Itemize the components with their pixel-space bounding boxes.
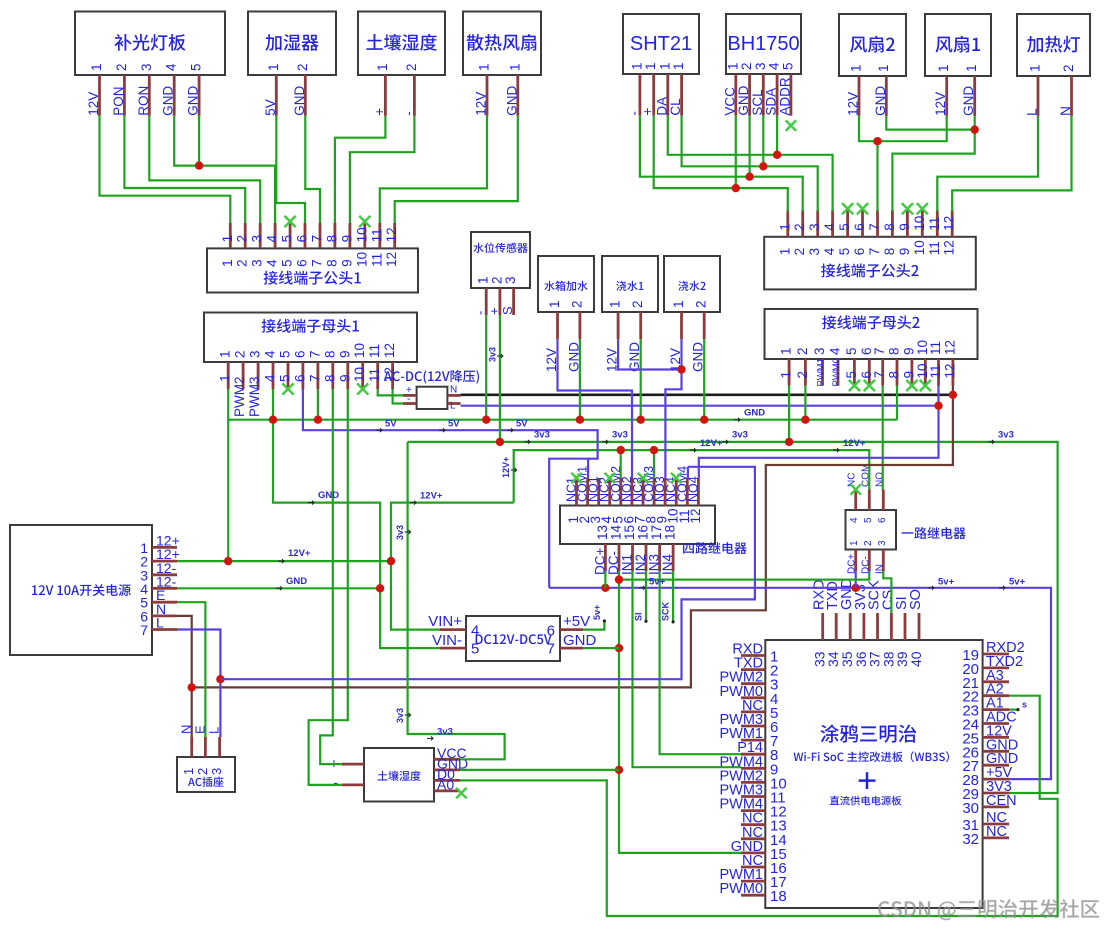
wire SHT21.+ / BH1750.VCC -> 公头2.1 <box>654 116 788 212</box>
J5 风扇2 pin 1 (12V) <box>846 64 864 115</box>
junction DC- U6.GND <box>615 766 623 774</box>
K2 pin 5 (COM) <box>860 464 874 523</box>
svg-text:10: 10 <box>912 240 927 255</box>
svg-text:8: 8 <box>324 259 339 267</box>
wire 补光灯板.1 12V -> 公头1.1 <box>100 116 231 223</box>
U3 BH1750 光照传感器 pin 2 (GND) <box>736 62 754 115</box>
no-connect J9 接线端子公头2 pin 5 <box>842 203 853 214</box>
U1 pin 37 (SCK) <box>867 580 883 667</box>
svg-text:3v3: 3v3 <box>998 430 1014 441</box>
net label 5v+ x3 <box>639 577 1026 590</box>
wire U1.23 A1 s flag <box>1009 708 1018 710</box>
svg-text:3v3: 3v3 <box>732 430 748 441</box>
svg-text:4: 4 <box>767 62 782 70</box>
J8 接线端子公头1 pin 4 <box>265 223 280 267</box>
svg-text:CL: CL <box>668 98 683 116</box>
svg-text:3: 3 <box>250 259 265 267</box>
svg-text:DA: DA <box>654 97 669 116</box>
U1 pin 3 (PWM2) <box>720 670 779 694</box>
wire 母头2.12 -> AC-N junction <box>952 386 954 395</box>
svg-text:3v3: 3v3 <box>395 708 405 723</box>
svg-text:1: 1 <box>643 62 658 70</box>
net label 3v3 rotated 水位 <box>487 347 503 362</box>
J15 浇水2 pin 2 (GND) <box>691 300 709 372</box>
svg-text:3: 3 <box>503 276 518 284</box>
U4 pin L <box>447 401 460 412</box>
svg-text:9: 9 <box>339 235 354 243</box>
connector J5 风扇2 <box>839 14 906 76</box>
svg-text:2: 2 <box>863 540 874 546</box>
J11 接线端子母头2 pin 2 <box>795 347 810 385</box>
J10 接线端子母头1 pin 7 <box>307 350 322 389</box>
wire DC- rail east <box>619 571 869 579</box>
wire PSU.7 L -> AC插座.3 <box>177 630 220 738</box>
svg-text:8: 8 <box>324 235 339 243</box>
svg-text:4: 4 <box>822 223 837 231</box>
no-connect K2 NC <box>851 484 861 494</box>
svg-text:11: 11 <box>369 253 384 267</box>
connector J9 接线端子公头2 <box>764 237 976 290</box>
wire K1.IN4 SCK flag <box>672 571 674 622</box>
U1 pin 36 (3V3) <box>853 584 869 667</box>
U1 pin 40 (SO) <box>908 589 924 667</box>
svg-text:VIN-: VIN- <box>432 632 462 649</box>
wire N net: 母头2.12 -> PSU.N / AC插座.N <box>192 395 953 688</box>
svg-text:1: 1 <box>220 259 235 267</box>
svg-text:6: 6 <box>852 248 867 256</box>
svg-text:9: 9 <box>897 223 912 231</box>
PS1 pin 3 (12-) <box>140 560 177 584</box>
svg-text:1: 1 <box>964 64 979 72</box>
svg-text:11: 11 <box>927 241 942 255</box>
wire U5.+5V 5v+ flag <box>583 621 604 630</box>
svg-text:12V+: 12V+ <box>501 457 511 478</box>
svg-text:8: 8 <box>887 371 902 379</box>
svg-text:12: 12 <box>382 343 397 358</box>
wire 加热灯.L -> 公头2.11 <box>937 116 1038 212</box>
svg-text:10: 10 <box>354 227 369 242</box>
U2 SHT21 温湿度传感器 pin 1 (CL) <box>668 62 686 115</box>
wire 12V+ bus west segment <box>391 503 514 630</box>
K1 pin 4 (NC2) <box>598 477 615 524</box>
PS1 pin 1 (12+) <box>140 532 180 556</box>
module U5 DC12V-DC5V <box>466 616 560 661</box>
svg-text:GND: GND <box>318 490 339 501</box>
net label 5V x3 <box>376 419 528 433</box>
svg-text:5: 5 <box>471 641 479 658</box>
wire 土壤湿度.+ -> 公头1.8 <box>335 116 386 223</box>
svg-text:10: 10 <box>912 216 927 231</box>
U1 pin 19 (RXD2) <box>962 640 1024 664</box>
module U6 土壤湿度 <box>364 748 434 802</box>
U1 pin 10 (PWM2) <box>720 768 787 792</box>
svg-text:4: 4 <box>263 374 278 382</box>
U1 pin 20 (TXD2) <box>962 654 1023 678</box>
connector J3 土壤湿度传感器接头 <box>358 12 445 76</box>
svg-text:A0: A0 <box>437 776 454 792</box>
svg-text:PON: PON <box>111 87 126 116</box>
svg-text:18: 18 <box>770 888 787 905</box>
svg-text:12V+: 12V+ <box>288 548 311 559</box>
wire U6.D0 -> U1.22 A2 <box>460 696 1058 916</box>
wire 补光灯板.2 PON -> 公头1.2 <box>124 116 245 223</box>
svg-text:12: 12 <box>384 227 399 242</box>
svg-text:10: 10 <box>352 367 367 382</box>
svg-text:5V: 5V <box>448 419 460 430</box>
U1 pin 31 (NC) <box>962 810 1009 834</box>
svg-text:5v+: 5v+ <box>649 577 666 588</box>
svg-text:3v3: 3v3 <box>395 525 405 540</box>
K1 pin 13 (DC+) <box>592 525 610 575</box>
J16 pin 1 (N) <box>179 725 197 775</box>
svg-text:11: 11 <box>928 341 943 355</box>
no-connect J11 接线端子母头2 pin 9 <box>906 380 917 391</box>
J3 土壤湿度传感器接头 pin 2 (-) <box>401 63 419 115</box>
no-connect BH1750 ADDR <box>786 120 796 130</box>
U1 pin 21 (A3) <box>962 668 1009 692</box>
svg-text:PWM0: PWM0 <box>831 358 842 387</box>
wire 母头2.2 -> GND bus <box>804 386 806 420</box>
wire BH1750.SDA stub-down <box>776 116 778 155</box>
junction 灯GND <box>195 161 203 169</box>
J14 浇水1 pin 2 (GND) <box>627 300 645 372</box>
wire K2.DC+ -> 5v+ <box>855 571 857 588</box>
J2 加湿器 pin 1 (5V) <box>263 63 281 115</box>
net label 3v3 bus x4 <box>524 430 1014 444</box>
svg-text:5V: 5V <box>263 99 278 116</box>
svg-text:s: s <box>1022 700 1027 710</box>
wire K1.IN1 -> U1.9 PWM4 <box>633 571 742 767</box>
connector J6 风扇1 <box>925 14 991 76</box>
K2 pin 2 (DC-) <box>860 540 874 574</box>
svg-text:40: 40 <box>908 651 924 667</box>
U2 SHT21 温湿度传感器 pin 1 (DA) <box>654 62 672 115</box>
J9 接线端子公头2 pin 9 <box>897 210 912 255</box>
svg-text:1: 1 <box>507 63 522 71</box>
no-connect J9 接线端子公头2 pin 6 <box>857 203 868 214</box>
J4 散热风扇 pin 1 (12V) <box>474 63 492 115</box>
wire 补光灯板.3 RON -> 公头1.3 <box>149 116 260 223</box>
J8 接线端子公头1 pin 3 <box>250 223 265 267</box>
svg-text:7: 7 <box>307 350 322 358</box>
wire PSU.6 N -> AC插座.1 <box>177 616 192 737</box>
wire 风扇2.12V joins 风扇1.12V <box>859 116 878 141</box>
wire PSU.5 E -> AC插座.2 <box>177 602 205 737</box>
J7 加热灯 pin 2 (N) <box>1058 64 1076 115</box>
svg-text:GND: GND <box>873 86 888 116</box>
wire 12V+ -> COM2 <box>620 450 622 478</box>
J10 接线端子母头1 pin 10 <box>352 343 367 389</box>
U4 pin - <box>403 393 417 405</box>
svg-text:2: 2 <box>233 350 248 358</box>
svg-text:S: S <box>500 306 515 315</box>
wire 浇水2.GND -> GND bus <box>703 339 705 419</box>
wire SHT21.- / BH1750.GND -> 公头2.2 <box>640 116 803 212</box>
U2 SHT21 温湿度传感器 pin 1 (-) <box>626 62 644 115</box>
svg-text:NC: NC <box>986 824 1007 840</box>
svg-text:SCL: SCL <box>750 89 765 116</box>
svg-text:11: 11 <box>367 368 382 382</box>
wire 风扇2.GND joins 风扇1.GND <box>886 116 974 130</box>
J16 pin 2 (E) <box>192 725 210 775</box>
svg-text:6: 6 <box>852 223 867 231</box>
junction N AC插座 <box>188 683 196 691</box>
wire U6.GND -> DC- rail <box>460 769 619 771</box>
junction GND bus <box>637 416 645 424</box>
no-connect J9 接线端子公头2 pin 9 <box>902 203 913 214</box>
U1 pin 2 (TXD) <box>734 656 778 680</box>
wire 水位传感器.- -> GND bus <box>485 315 487 420</box>
wire GND bus <box>229 419 898 421</box>
wire 加湿器.2 GND -> 公头1.7 <box>305 116 320 223</box>
svg-text:N: N <box>1058 106 1073 116</box>
J11 接线端子母头2 pin 10 <box>915 340 930 386</box>
svg-text:3: 3 <box>209 768 224 775</box>
svg-text:GND: GND <box>504 86 519 116</box>
junction 5v+ K1.DC+ <box>601 584 609 592</box>
J10 接线端子母头1 pin 11 <box>367 344 382 389</box>
connector J15 浇水2 <box>664 256 720 312</box>
J9 接线端子公头2 pin 3 <box>807 210 822 255</box>
svg-text:12V+: 12V+ <box>420 491 443 502</box>
K1 pin 15 (IN1) <box>620 525 638 575</box>
svg-text:VIN+: VIN+ <box>428 613 462 630</box>
J11 接线端子母头2 pin 8 <box>887 347 902 385</box>
svg-text:-: - <box>333 774 338 790</box>
svg-text:GND: GND <box>563 632 597 649</box>
svg-text:4: 4 <box>828 347 843 355</box>
U4 pin + <box>403 385 417 396</box>
wire 母头1.11 -> AC-DC.+ <box>378 389 403 395</box>
J11 接线端子母头2 pin 4 <box>828 347 843 387</box>
svg-text:18: 18 <box>663 525 678 540</box>
svg-text:12: 12 <box>688 508 703 523</box>
svg-text:5V: 5V <box>385 419 397 430</box>
junction 风扇12V <box>873 137 881 145</box>
svg-text:12V+: 12V+ <box>700 438 723 449</box>
svg-text:30: 30 <box>962 800 979 817</box>
junction I2C VCC <box>732 184 740 192</box>
wire 水箱加水.GND -> GND bus <box>579 339 581 419</box>
PS1 pin 2 (12+) <box>140 546 180 570</box>
U1 pin 22 (A2) <box>962 682 1009 706</box>
wire 母头2.1 -> 3v3 bus <box>788 386 790 442</box>
svg-text:2: 2 <box>195 768 210 775</box>
U1 pin 30 (CEN) <box>962 793 1016 817</box>
wire 母头1.6 -> 5V line <box>303 389 598 588</box>
svg-text:3v3: 3v3 <box>437 727 453 738</box>
no-connect J11 接线端子母头2 pin 10 <box>920 380 931 391</box>
svg-text:12: 12 <box>942 340 957 355</box>
junction N at 母头2.12 <box>949 391 957 399</box>
svg-text:PWM1: PWM1 <box>816 358 827 387</box>
PS1 pin 5 (E) <box>140 587 177 611</box>
svg-text:9: 9 <box>337 374 352 382</box>
J10 接线端子母头1 pin 2 <box>232 350 248 417</box>
wire 浇水2.12V -> 四路继电器.NO3 <box>665 339 681 478</box>
junction 风扇GND <box>971 125 979 133</box>
junction L AC插座 <box>216 675 224 683</box>
svg-text:PWM3: PWM3 <box>247 377 262 418</box>
wire DC- rail <box>619 571 741 853</box>
connector J16 AC插座 <box>177 757 235 792</box>
U1 pin 27 (GND) <box>962 751 1018 775</box>
junction GND bus <box>700 416 708 424</box>
svg-text:+: + <box>640 108 655 116</box>
svg-text:12: 12 <box>384 252 399 267</box>
svg-text:4: 4 <box>471 623 479 640</box>
J7 加热灯 pin 1 (L) <box>1025 64 1043 115</box>
U5 pin 6 (+5V) <box>547 613 590 640</box>
svg-text:GND: GND <box>961 86 976 116</box>
wire 母头2.11 -> AC-L junction <box>937 386 939 406</box>
connector J8 接线端子公头1 <box>207 248 418 292</box>
svg-text:3v3: 3v3 <box>487 347 497 362</box>
junction DC- U5.GND <box>615 644 623 652</box>
svg-text:5: 5 <box>280 235 295 243</box>
svg-text:1: 1 <box>777 248 792 256</box>
svg-text:8: 8 <box>882 248 897 256</box>
U1 pin 17 (PWM1) <box>720 867 787 891</box>
U3 BH1750 光照传感器 pin 4 (SDA) <box>764 62 782 116</box>
J9 接线端子公头2 pin 7 <box>867 210 882 255</box>
net label s <box>1016 700 1027 712</box>
svg-text:4: 4 <box>263 350 278 358</box>
wire 土壤湿度.- -> 公头1.9 <box>350 116 415 223</box>
wire SHT21.DA / BH1750.SDA -> 公头2.4 <box>668 116 833 212</box>
svg-text:5: 5 <box>837 248 852 256</box>
U1 pin 39 (SI) <box>894 596 910 667</box>
PS1 pin 6 (N) <box>140 601 177 625</box>
wire 补光灯板.4 GND -> 公头1.4 <box>174 116 275 223</box>
svg-text:32: 32 <box>962 831 979 848</box>
svg-text:7: 7 <box>867 223 882 231</box>
svg-text:GND: GND <box>186 86 201 116</box>
module U1 涂鸦三明治 Wi-Fi SoC 主控改进板 WB3S <box>765 640 982 908</box>
svg-text:7: 7 <box>867 248 882 256</box>
junction I2C GND <box>745 173 753 181</box>
connector J1 补光灯板 <box>75 12 225 76</box>
svg-text:8: 8 <box>887 347 902 355</box>
J8 接线端子公头1 pin 6 <box>295 223 310 267</box>
svg-text:6: 6 <box>295 235 310 243</box>
svg-text:1: 1 <box>477 63 492 71</box>
svg-text:2: 2 <box>295 63 310 71</box>
svg-text:2: 2 <box>795 347 810 355</box>
svg-text:1: 1 <box>220 235 235 243</box>
net label 12V+ rotated <box>501 457 517 478</box>
svg-text:3v3: 3v3 <box>534 430 550 441</box>
J9 接线端子公头2 pin 5 <box>837 210 852 255</box>
J9 接线端子公头2 pin 12 <box>942 210 957 255</box>
J11 接线端子母头2 pin 1 <box>779 347 794 385</box>
svg-text:5: 5 <box>844 347 859 355</box>
svg-text:GND: GND <box>161 86 176 116</box>
J10 接线端子母头1 pin 5 <box>278 350 293 389</box>
svg-text:7: 7 <box>140 622 148 638</box>
U1 pin 14 (NC) <box>741 825 787 849</box>
svg-text:5: 5 <box>189 63 204 71</box>
svg-text:DC+: DC+ <box>847 554 858 574</box>
svg-text:5: 5 <box>278 374 293 382</box>
net label GND bus <box>734 408 765 422</box>
junction GND bus <box>314 416 322 424</box>
U1 pin 28 (+5V) <box>962 765 1012 789</box>
J8 接线端子公头1 pin 1 <box>220 223 235 267</box>
svg-text:11: 11 <box>928 364 943 378</box>
svg-text:7: 7 <box>307 374 322 382</box>
junction 12V+ VIN+ <box>387 557 395 565</box>
watermark CSDN @三明治开发社区 <box>878 899 1099 920</box>
svg-text:1: 1 <box>671 62 686 70</box>
J4 散热风扇 pin 1 (GND) <box>504 63 522 115</box>
U5 pin 7 (GND) <box>547 632 597 658</box>
svg-text:L: L <box>156 615 164 631</box>
J13 水箱加水 pin 2 (GND) <box>566 300 584 372</box>
svg-text:9: 9 <box>339 259 354 267</box>
connector J4 散热风扇 <box>463 12 541 76</box>
connector J7 加热灯 <box>1017 14 1090 76</box>
svg-text:GND: GND <box>286 576 307 587</box>
U1 pin 11 (PWM3) <box>720 783 786 807</box>
svg-text:12V+: 12V+ <box>843 438 866 449</box>
svg-text:2: 2 <box>235 259 250 267</box>
no-connect J8 接线端子公头1 pin 10 <box>359 216 370 227</box>
no-connect J11 接线端子母头2 pin 6 <box>864 380 875 391</box>
svg-text:5: 5 <box>780 62 795 70</box>
svg-text:6: 6 <box>295 259 310 267</box>
wire AC-N net (black) AC-DC.N -> 母头2.12 junction <box>461 393 953 396</box>
svg-text:8: 8 <box>882 223 897 231</box>
svg-text:VCC: VCC <box>722 87 737 116</box>
svg-text:3: 3 <box>807 223 822 231</box>
U1 pin 25 (12V) <box>962 723 1012 747</box>
svg-text:10: 10 <box>354 252 369 267</box>
J10 接线端子母头1 pin 6 <box>292 350 307 389</box>
svg-text:2: 2 <box>114 63 129 71</box>
svg-text:4: 4 <box>164 63 179 71</box>
net label SCK <box>661 601 675 623</box>
svg-text:12: 12 <box>942 363 957 378</box>
module K1 四路继电器 <box>560 506 747 555</box>
U1 pin 6 (PWM3) <box>720 712 779 736</box>
U1 pin 12 (PWM4) <box>720 797 787 821</box>
no-connect K1 NC pin <box>571 473 581 483</box>
svg-text:3v3: 3v3 <box>612 430 628 441</box>
wire 5v+ rail <box>549 588 1051 779</box>
svg-text:2: 2 <box>235 235 250 243</box>
U1 pin 33 (RXD) <box>812 579 828 667</box>
J13 水箱加水 pin 1 (12V) <box>544 300 562 372</box>
svg-text:5v+: 5v+ <box>1009 577 1026 588</box>
U1 pin 24 (ADC) <box>962 710 1016 734</box>
J10 接线端子母头1 pin 1 <box>218 350 233 389</box>
J8 接线端子公头1 pin 11 <box>369 223 384 267</box>
U1 pin 18 (PWM0) <box>720 881 787 905</box>
svg-text:12V: 12V <box>846 92 861 116</box>
svg-text:1: 1 <box>779 371 794 379</box>
svg-text:4: 4 <box>265 259 280 267</box>
J1 补光灯板 pin 4 (GND) <box>161 63 179 116</box>
svg-text:7: 7 <box>872 347 887 355</box>
K1 pin 14 (DC-) <box>606 524 624 575</box>
svg-text:12: 12 <box>942 216 957 231</box>
U6 pin D0 <box>434 766 460 782</box>
svg-text:7: 7 <box>872 371 887 379</box>
svg-text:7: 7 <box>310 259 325 267</box>
svg-text:3: 3 <box>139 63 154 71</box>
svg-text:1: 1 <box>547 300 562 308</box>
